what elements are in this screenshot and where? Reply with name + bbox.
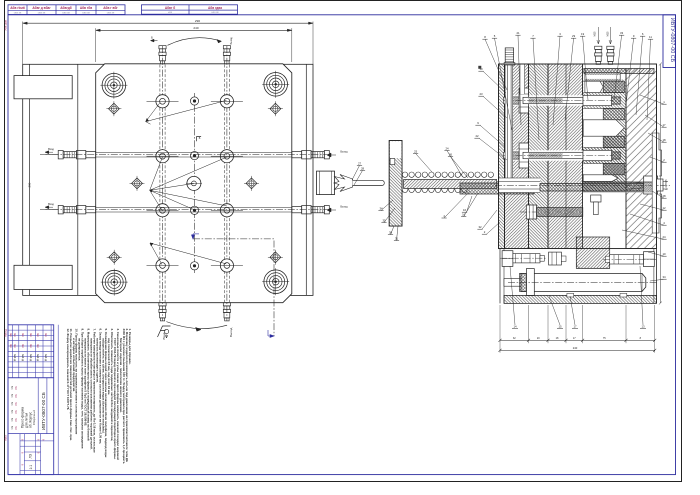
svg-text:Абвг д вбаг: Абвг д вбаг	[32, 6, 51, 10]
guide pin 162.5,101.3	[147, 95, 179, 108]
svg-text:21: 21	[516, 31, 520, 35]
plan plate inner edge left	[28, 64, 30, 295]
sec plate P1 split	[504, 64, 506, 249]
svg-text:12. Форму консервировать смазк: 12. Форму консервировать смазкой К-17 ГО…	[66, 329, 70, 411]
locating ring white	[652, 133, 656, 233]
svg-text:ЛЗ: ЛЗ	[29, 454, 33, 459]
svg-text:30: 30	[389, 231, 393, 235]
svg-text:35: 35	[382, 219, 386, 223]
lower white block	[583, 192, 625, 237]
callout 30	[388, 226, 394, 235]
svg-text:Авб гд: Авб гд	[29, 354, 32, 362]
plan wide clamp plate	[23, 64, 313, 295]
svg-text:бвг: бвг	[13, 333, 16, 337]
roughness mark near notes	[158, 326, 171, 337]
svg-text:бвг: бвг	[9, 333, 12, 337]
section top callouts	[482, 31, 653, 140]
svg-text:Абв гдва: Абв гдва	[208, 6, 222, 10]
svg-text:ыва ав: ыва ав	[211, 12, 219, 14]
guide pin 226.9,101.3	[211, 95, 243, 108]
view arrow left (blue)	[192, 234, 195, 239]
water rod 1	[40, 151, 332, 159]
ejector bar axis	[508, 282, 658, 284]
vertical rod	[507, 58, 509, 186]
cavity walls 1	[583, 81, 624, 120]
arrow outlet rod2	[327, 208, 336, 212]
svg-text:33: 33	[620, 31, 624, 35]
svg-text:1:1: 1:1	[29, 465, 33, 470]
svg-text:Выход: Выход	[340, 206, 348, 209]
square pocket at 113.9,108.7	[106, 101, 121, 116]
thin pin channel	[520, 65, 525, 95]
callout 28	[354, 167, 365, 185]
ej bolt1 head	[502, 251, 513, 267]
top insert bar	[584, 69, 654, 74]
bottom clamp band	[504, 295, 657, 303]
axis centerline	[495, 184, 670, 186]
small arrow top-left of nipple1	[151, 39, 158, 42]
svg-text:Сборочный: Сборочный	[32, 410, 36, 425]
guide bushing at 113.9,85.2	[100, 72, 127, 99]
plan plate edge left2	[77, 64, 79, 295]
svg-text:Абв.гдбв: Абв.гдбв	[4, 19, 8, 30]
svg-text:12: 12	[662, 206, 666, 210]
technical requirements notes (rotated)	[66, 329, 132, 465]
svg-text:10: 10	[662, 252, 666, 256]
svg-text:бвг: бвг	[9, 344, 12, 348]
sec plate P1a hatch	[499, 64, 505, 249]
callout 4	[442, 191, 471, 218]
callout 24	[444, 147, 462, 176]
right dim 165	[659, 64, 661, 303]
vertical rod knob	[505, 48, 513, 63]
svg-text:Авб гд: Авб гд	[13, 354, 16, 362]
svg-text:290: 290	[195, 19, 200, 23]
centerline col 1	[162, 46, 164, 321]
knockout plate	[389, 141, 402, 227]
sec plate P1b hatch	[505, 64, 529, 249]
svg-text:Вход: Вход	[48, 202, 54, 206]
square pocket at 275.4,108.7	[268, 101, 283, 116]
arrow outlet rod1	[327, 153, 336, 157]
callout 16	[461, 193, 478, 217]
leader fan middle	[150, 157, 227, 211]
plan dim 240	[96, 29, 292, 31]
svg-text:16: 16	[463, 208, 467, 212]
ejector tail rod	[504, 279, 526, 287]
section mark mid	[197, 137, 202, 142]
svg-text:ИВТУ-0807-00 СБ: ИВТУ-0807-00 СБ	[41, 392, 46, 430]
svg-text:Абв г вбг: Абв г вбг	[103, 6, 118, 10]
guide pin 162.5,265.5	[147, 259, 179, 272]
guide pin 226.9,210.3	[211, 204, 243, 217]
svg-text:23: 23	[479, 92, 483, 96]
svg-text:32: 32	[478, 225, 482, 229]
svg-text:24: 24	[662, 235, 666, 239]
chamfer diagonals	[96, 64, 292, 303]
stop pad 1	[567, 293, 574, 297]
guide pin 226.9,156.2	[211, 150, 243, 163]
small pin 194.5,265.8	[190, 262, 198, 270]
top strip white2	[583, 74, 625, 80]
svg-text:Б: Б	[151, 36, 153, 40]
square pocket at 275.4,257.3	[268, 250, 283, 265]
svg-text:Абв.г: Абв.г	[4, 435, 8, 441]
core unit 2	[504, 143, 621, 168]
cavity void top	[585, 81, 603, 92]
svg-text:ыва ав: ыва ав	[107, 11, 115, 14]
title block text	[9, 333, 47, 469]
spring rod	[404, 180, 497, 189]
callout 31	[394, 226, 399, 241]
plan left lug bottom	[14, 265, 72, 289]
svg-text:ыва ав: ыва ав	[62, 11, 70, 14]
svg-text:бвг: бвг	[13, 344, 16, 348]
svg-text:Абв.гд: Абв.гд	[4, 329, 8, 337]
axis channel left	[499, 178, 540, 193]
svg-text:ыва ав: ыва ав	[82, 11, 90, 14]
cavity void mid	[583, 120, 624, 136]
cavity walls 2	[583, 136, 624, 175]
ej bolt2 shaft	[610, 255, 644, 264]
callout 27	[352, 162, 362, 180]
svg-text:1-4 НВ25: 1-4 НВ25	[665, 179, 668, 190]
sprue puller body	[317, 171, 335, 195]
title block grid	[8, 325, 54, 475]
svg-text:24: 24	[445, 147, 449, 151]
sprue block	[644, 176, 658, 194]
ejector housing walls	[499, 249, 501, 304]
cavity insert stack	[585, 73, 620, 82]
svg-text:17: 17	[573, 325, 577, 329]
sec cavity plate hatch low	[583, 128, 626, 192]
ej bolt1 shaft	[513, 254, 540, 263]
sec fixed plate hatch	[626, 64, 657, 249]
header table group 2	[142, 5, 238, 14]
ejector bar left hatch	[520, 273, 527, 291]
svg-text:28: 28	[662, 194, 666, 198]
hidden lines col	[224, 65, 229, 303]
centerline col mid	[194, 93, 196, 273]
svg-text:М10: М10	[607, 31, 610, 36]
small pin 194.5,210.3	[190, 206, 198, 214]
guide pin 162.5,156.2	[147, 150, 179, 163]
nipple top col1	[159, 46, 166, 64]
spring lower coils	[402, 189, 467, 193]
svg-text:25: 25	[414, 150, 418, 154]
plan plate inner edge right	[305, 64, 307, 295]
svg-text:бвг: бвг	[29, 344, 32, 348]
stop pad 2	[620, 293, 627, 297]
svg-text:Абв гбв: Абв гбв	[80, 6, 92, 10]
top flow arc	[168, 38, 222, 46]
guide bushing at 275.7,281.7	[262, 268, 289, 295]
svg-text:ыва ав: ыва ав	[38, 11, 46, 14]
svg-text:240: 240	[193, 26, 198, 30]
svg-text:Авб гд: Авб гд	[21, 354, 24, 362]
svg-text:ыва ав: ыва ав	[14, 11, 22, 14]
bolt3 head	[526, 205, 536, 219]
callout 34	[378, 200, 393, 211]
guide pin 226.9,265.5	[211, 259, 243, 272]
leader fan top	[146, 103, 160, 124]
sec cavity plate hatch	[583, 64, 626, 192]
sec plate P2 hatch	[529, 64, 549, 249]
vertical rod channel	[505, 65, 513, 191]
svg-text:17: 17	[662, 123, 666, 127]
water rod 2	[40, 206, 332, 214]
sprue cap	[657, 179, 664, 191]
callout 25	[413, 150, 432, 172]
section outline	[499, 64, 657, 249]
section dim row 1	[499, 305, 657, 343]
sec nipple 2	[607, 46, 614, 64]
svg-text:Абвг б: Абвг б	[165, 6, 175, 10]
centerline col 2	[226, 46, 228, 321]
svg-text:31: 31	[395, 237, 399, 241]
svg-text:бвг: бвг	[44, 333, 47, 337]
sec plate P3 split	[565, 64, 567, 249]
plan main plate (chamfered)	[96, 64, 292, 303]
sec plate P3 hatch	[548, 64, 583, 249]
svg-text:290: 290	[28, 182, 32, 187]
top strip white	[583, 65, 656, 69]
svg-text:14: 14	[513, 325, 517, 329]
guide bushing at 114.2,282.1	[101, 269, 128, 296]
guide pin 162.5,210.3	[147, 204, 179, 217]
bolt3 shaft	[537, 208, 583, 217]
header table group 1	[8, 5, 125, 15]
document number box	[663, 15, 676, 68]
center sprue circle	[186, 176, 202, 190]
section left callouts	[462, 67, 507, 234]
core unit 1	[504, 88, 621, 113]
T-bolt	[591, 195, 601, 202]
svg-text:26: 26	[449, 153, 453, 157]
axis rod through P1	[497, 181, 541, 183]
sec nipple 1	[595, 46, 602, 64]
svg-text:Выход: Выход	[229, 328, 233, 337]
svg-text:15: 15	[558, 325, 562, 329]
ejector bar	[521, 273, 646, 291]
guide bushing at 275.7,84.3	[262, 71, 289, 98]
svg-text:34: 34	[662, 275, 666, 279]
ej return pin shaft	[561, 256, 566, 261]
threaded sleeve	[460, 183, 534, 194]
svg-text:27: 27	[358, 162, 362, 166]
plan dim 290	[23, 22, 313, 24]
svg-text:34: 34	[379, 207, 383, 211]
callout 35	[381, 208, 395, 223]
ej bolt2 head	[644, 252, 655, 267]
cavity void low	[583, 175, 618, 182]
ej bolt2 pilot	[605, 256, 609, 262]
bottom flow arc	[166, 322, 227, 329]
view direction polyline	[193, 239, 274, 336]
plate bottom boundary	[499, 248, 657, 250]
svg-text:ыва: ыва	[168, 12, 173, 14]
svg-text:16: 16	[462, 213, 466, 217]
tiny mark left of section	[478, 66, 481, 69]
bolt3 axis	[520, 211, 590, 213]
svg-text:240: 240	[573, 346, 578, 350]
square pocket at 114.2,257.3	[107, 250, 122, 265]
svg-text:22: 22	[475, 134, 479, 138]
small pin 194.5,155.6	[190, 152, 198, 160]
square pocket at 251.5,183.4	[244, 176, 259, 191]
svg-text:19: 19	[581, 32, 585, 36]
svg-text:29: 29	[572, 34, 576, 38]
section right callouts	[622, 95, 667, 281]
svg-text:бвг: бвг	[36, 344, 39, 348]
plan left lug top	[14, 76, 72, 99]
hidden lines col	[160, 65, 165, 303]
axis bar	[540, 184, 648, 192]
ej return pin head	[549, 252, 562, 265]
locating ring profile	[652, 133, 661, 233]
svg-text:Выход: Выход	[340, 151, 348, 154]
small pin 194.5,101.0	[190, 97, 198, 105]
svg-text:Авб гд: Авб гд	[36, 354, 39, 362]
support pillar	[576, 237, 609, 268]
square pocket at 137.0,183.4	[130, 176, 145, 191]
svg-text:11: 11	[649, 35, 652, 39]
svg-text:Авб гд: Авб гд	[44, 354, 47, 362]
nipple bottom col1	[159, 303, 166, 321]
svg-text:Вход: Вход	[48, 147, 54, 151]
spring upper coils	[402, 172, 493, 177]
ej bolt1 tip	[540, 255, 544, 261]
svg-text:бвг: бвг	[21, 344, 24, 348]
mid horizontal bar right	[583, 182, 653, 192]
ej bolt1 axis	[500, 257, 547, 259]
nozzle rod	[353, 180, 385, 185]
ej bolt2 axis	[603, 258, 656, 260]
nipple bottom col2	[223, 303, 230, 321]
leader fan bottom	[150, 243, 226, 265]
nozzle flame	[334, 175, 353, 192]
ejector bar T-flange	[526, 269, 534, 296]
svg-text:Вход: Вход	[162, 332, 166, 339]
view arrow bottom (blue)	[268, 335, 274, 338]
svg-text:бвг: бвг	[36, 333, 39, 337]
svg-text:13: 13	[641, 325, 645, 329]
svg-text:Абв гbutt: Абв гbutt	[10, 6, 25, 10]
svg-text:Выход: Выход	[230, 37, 233, 45]
svg-text:М10: М10	[594, 31, 597, 36]
svg-text:28: 28	[361, 167, 365, 171]
svg-text:18: 18	[662, 138, 666, 142]
svg-text:бвг: бвг	[29, 333, 32, 337]
section bottom callouts	[510, 266, 646, 329]
nipple top col2	[223, 46, 230, 64]
section dim total	[500, 349, 655, 351]
callout 26	[448, 153, 468, 178]
svg-text:Абвгдб: Абвгдб	[60, 6, 71, 10]
svg-text:ИВТУ-0807-00 СБ: ИВТУ-0807-00 СБ	[669, 18, 675, 63]
svg-text:бвг: бвг	[21, 333, 24, 337]
